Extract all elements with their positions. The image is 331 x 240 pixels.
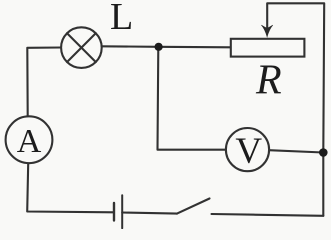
svg-text:R: R	[255, 58, 282, 104]
svg-text:L: L	[110, 0, 133, 38]
svg-text:A: A	[17, 123, 42, 160]
svg-text:V: V	[235, 131, 262, 172]
